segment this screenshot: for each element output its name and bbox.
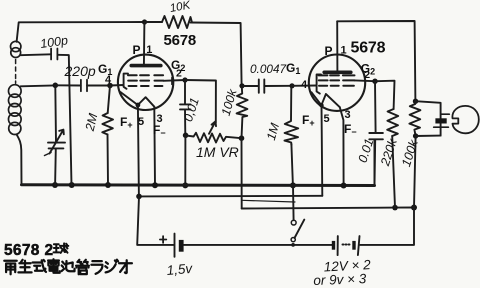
katakana ji bbox=[105, 260, 118, 273]
battery BT2 cell2 plus plate bbox=[358, 236, 360, 255]
wire G2 node down to C5 bbox=[184, 80, 186, 104]
node bus 100p bbox=[69, 182, 75, 188]
node bus varcap bbox=[52, 182, 58, 188]
wire top left from antenna coil top to plate node bbox=[17, 22, 145, 42]
kanji den bbox=[48, 259, 60, 273]
node bus 2M bbox=[105, 182, 111, 188]
wire C5 bottom to VR node bbox=[184, 110, 186, 136]
wire coil tap to 100p bbox=[20, 53, 51, 56]
node plate V1 top bbox=[142, 19, 147, 24]
ground bus right end riser bbox=[374, 140, 376, 186]
svg-text:or 9v × 3: or 9v × 3 bbox=[313, 271, 367, 288]
katakana ra bbox=[91, 261, 102, 274]
wire B+ rail bbox=[242, 208, 414, 209]
svg-text:1: 1 bbox=[146, 44, 152, 56]
svg-text:4: 4 bbox=[105, 74, 112, 86]
svg-text:4: 4 bbox=[301, 79, 308, 91]
tube V1 grid dashes row2 bbox=[128, 80, 163, 82]
variable capacitor VC1 plates bbox=[48, 143, 65, 149]
earphone top wire bbox=[416, 101, 441, 135]
potentiometer VR1 arrow bbox=[209, 121, 216, 133]
wire 220p to G1 node V1 bbox=[87, 85, 110, 87]
resistor R3 220K bbox=[387, 109, 398, 136]
svg-text:56782: 56782 bbox=[4, 242, 53, 259]
battery BT2 cell2 minus plate bbox=[352, 241, 355, 250]
resistor R6 2M top lead bbox=[108, 86, 110, 114]
tube V1 envelope bbox=[118, 55, 173, 110]
svg-text:1: 1 bbox=[341, 45, 347, 57]
node ground R5 bbox=[290, 182, 296, 188]
kanji sai bbox=[4, 261, 16, 275]
tube V2 filament joint dot bbox=[319, 103, 323, 107]
wire R3 bottom to B+ rail bbox=[392, 136, 395, 208]
wire G2 node to 220K top bbox=[375, 81, 395, 109]
katakana o bbox=[119, 260, 132, 273]
wire G2 node down to C6 bbox=[374, 81, 377, 132]
svg-text:2: 2 bbox=[364, 69, 370, 81]
svg-text:3: 3 bbox=[345, 109, 351, 121]
tube V1 G2 lead bbox=[163, 79, 185, 82]
antenna coil core dashes bbox=[15, 60, 17, 84]
svg-text:1M VR: 1M VR bbox=[196, 144, 239, 160]
earphone crystal plate bottom bbox=[434, 126, 449, 128]
wire 2M bottom to bus bbox=[107, 134, 110, 185]
variable capacitor VC1 tail stroke bbox=[45, 153, 52, 156]
wire C6 bottom to ground bus end bbox=[374, 140, 377, 186]
node VR right bbox=[239, 135, 245, 141]
node tune varcap bbox=[53, 83, 59, 89]
svg-text:2: 2 bbox=[176, 68, 182, 80]
tube V1 plate bar bbox=[131, 64, 161, 68]
tube V2 filament bbox=[312, 92, 340, 107]
wire L2 top to tune line bbox=[21, 84, 55, 87]
battery BT1 plus sign bbox=[160, 236, 166, 243]
tube V2 grid dashes row1 bbox=[319, 74, 355, 76]
tube V2 plate lead bbox=[336, 21, 338, 72]
earphone ear shape bbox=[452, 106, 478, 133]
node G2 V1 bbox=[182, 77, 187, 82]
wire plate node to resistor R1 bbox=[145, 21, 162, 23]
tube V1 G1 lead bbox=[110, 84, 124, 87]
battery BT1 plus plate bbox=[174, 234, 176, 257]
svg-text:P: P bbox=[133, 43, 141, 57]
resistor R5 grid leak bbox=[285, 88, 299, 145]
svg-text:5: 5 bbox=[138, 116, 144, 128]
title line2 regenerative battery tube radio (vector kanji) bbox=[4, 259, 132, 274]
wire BT2 to B+ riser bbox=[360, 208, 414, 245]
node B+ battery bbox=[411, 205, 417, 211]
tube V2 G2 lead bbox=[355, 79, 375, 82]
node G1 V2 bbox=[289, 83, 294, 88]
node ground VRleft bbox=[182, 182, 188, 188]
tube V1 grid dashes row3 bbox=[129, 85, 163, 87]
svg-text:0.0047: 0.0047 bbox=[250, 62, 287, 76]
switch SW1 lever bbox=[295, 220, 305, 238]
kanji chi bbox=[62, 261, 75, 271]
wire C4 to grid node V2 bbox=[264, 85, 292, 87]
tube V1 pin3 lead F- bbox=[153, 107, 156, 186]
tube V2 grid dashes row2 bbox=[319, 79, 355, 81]
wire output bottom down to B+ node bbox=[414, 136, 416, 208]
switch SW1 bottom joint bbox=[291, 243, 295, 247]
wire 100p right to ground bbox=[57, 55, 71, 185]
svg-text:5678: 5678 bbox=[351, 40, 386, 57]
variable capacitor VC1 bottom lead bbox=[54, 149, 57, 185]
kanji shiki bbox=[33, 260, 46, 272]
node F+ A battery bbox=[136, 194, 142, 200]
node coupling X bbox=[239, 83, 244, 88]
wire VR right down to B+ rail bbox=[241, 138, 243, 208]
tube V1 filament joint dot bbox=[136, 103, 141, 108]
wire plate V2 top to output bbox=[337, 21, 415, 101]
tube V2 grid dashes row3 bbox=[319, 85, 354, 87]
tube V1 G2 pin tick bbox=[171, 78, 173, 85]
svg-text:220p: 220p bbox=[64, 63, 96, 79]
battery BT2 cell1 minus plate bbox=[332, 241, 335, 250]
antenna coil L1 top winding bbox=[11, 41, 21, 57]
wire ground node down to switch bbox=[292, 185, 295, 220]
node G1 V1 bbox=[107, 83, 113, 89]
earphone crystal body bbox=[435, 118, 446, 123]
tube V1 filament bbox=[120, 92, 154, 107]
kanji kan bbox=[76, 260, 89, 274]
tube V1 plate lead bbox=[143, 22, 146, 66]
wire VR left node to ground bbox=[184, 135, 186, 185]
battery BT2 cell1 plus plate bbox=[337, 236, 339, 255]
node VR left bbox=[183, 133, 189, 139]
battery BT2 dots bbox=[343, 244, 350, 246]
resistor R2 100K vertical bbox=[237, 87, 248, 138]
title kanji ball bbox=[54, 243, 69, 253]
tube V2 pin3 lead F- bbox=[340, 107, 344, 185]
switch SW1 top contact bbox=[291, 220, 296, 225]
ground bus bbox=[22, 183, 375, 187]
variable capacitor VC1 arrow bbox=[50, 130, 64, 154]
node bus F- V2 bbox=[341, 183, 347, 189]
earphone bottom wire bbox=[416, 135, 441, 137]
tube V2 G1 bracket bbox=[317, 75, 321, 94]
potentiometer VR1 1M body bbox=[186, 133, 242, 143]
wire R5 bottom to ground bus bbox=[291, 144, 293, 185]
wire G1 node into tube V2 bbox=[292, 85, 317, 87]
tube V2 plate bar bbox=[324, 71, 351, 75]
wire tune node to 220p bbox=[55, 84, 80, 86]
resistor R1 10K bbox=[162, 16, 192, 28]
node G2 V2 bbox=[372, 79, 377, 84]
tuning coil L2 winding bbox=[9, 85, 22, 135]
battery BT1 minus plate bbox=[179, 240, 184, 252]
capacitor C5 0.01 bbox=[180, 104, 191, 109]
tube V1 G1 bracket bbox=[124, 74, 128, 89]
capacitor C4 0.0047 bbox=[259, 80, 265, 93]
wire F+ node down to battery BT1 bbox=[137, 196, 174, 245]
node B+ 220K bbox=[392, 205, 398, 211]
wire R1 right to corner bbox=[191, 23, 242, 86]
wire G2 node corner to regen line bbox=[185, 80, 216, 123]
resistor R4 100K output bbox=[409, 101, 420, 136]
kanji sei bbox=[18, 260, 31, 273]
node output top bbox=[413, 99, 418, 104]
capacitor C2 220p bbox=[81, 80, 87, 91]
wire stub sketch bbox=[242, 200, 295, 202]
wire switch to battery BT2 bbox=[293, 244, 333, 246]
wire L2 bottom to bus bbox=[17, 134, 22, 184]
capacitor C6 0.01 bbox=[369, 133, 383, 139]
wire A battery F+ rail bbox=[139, 195, 322, 198]
wire node X to capacitor C4 bbox=[242, 85, 259, 87]
svg-text:5: 5 bbox=[324, 113, 330, 125]
svg-text:5678: 5678 bbox=[164, 32, 197, 49]
tube V1 grid dashes row1 bbox=[128, 74, 163, 76]
tube V2 pin5 lead F+ bbox=[321, 105, 324, 196]
node output bottom bbox=[413, 133, 418, 138]
earphone crystal plate top bbox=[442, 113, 450, 115]
svg-text:1,5v: 1,5v bbox=[166, 261, 194, 278]
capacitor C1 100p bbox=[51, 49, 57, 60]
node bus F- V1 bbox=[152, 182, 158, 188]
switch SW1 bottom contact bbox=[291, 238, 295, 242]
svg-text:P: P bbox=[325, 44, 333, 58]
resistor R6 2M bbox=[102, 113, 113, 135]
tube V1 pin5 lead F+ bbox=[138, 105, 139, 196]
wire BT1 to switch bbox=[184, 244, 294, 246]
tube V2 envelope bbox=[309, 54, 365, 110]
variable capacitor VC1 top lead bbox=[54, 85, 57, 142]
